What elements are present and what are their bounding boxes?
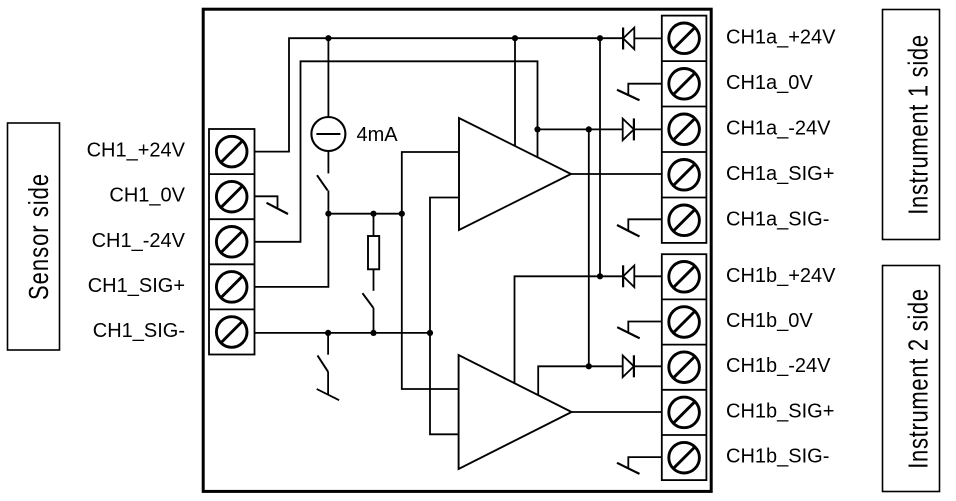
junction -24V rail at CH1a_-24V: [534, 126, 540, 132]
svg-text:CH1b_-24V: CH1b_-24V: [726, 355, 831, 377]
screw terminal TB1-1 CH1_+24V: [216, 136, 247, 167]
junction SIG- rail at op-amp branch: [427, 330, 433, 336]
wire CH1a_-24V rail to diode D2: [538, 128, 623, 130]
switch S2 blade: [363, 293, 374, 308]
junction node B at op-amp branch: [399, 211, 405, 217]
junction -24V down rail bottom: [586, 363, 592, 369]
diode D1 (to CH1a_+24V, cathode left): [623, 28, 634, 50]
switch S3 blade: [318, 356, 329, 372]
terminal block TB1 (sensor side) outline: [209, 129, 255, 355]
wire diode D2 to terminal TB2-3: [634, 128, 662, 130]
diode D3 (to CH1b_+24V, cathode left): [623, 265, 634, 287]
wire -24V down rail: [588, 129, 590, 366]
open stub at CH1a_SIG- terminal: [617, 219, 662, 236]
svg-text:Sensor side: Sensor side: [23, 173, 54, 300]
junction on node A above U1 supply: [512, 35, 518, 41]
screw terminal TB1-2 CH1_0V: [216, 181, 247, 212]
junction node B at switch S1: [325, 211, 331, 217]
svg-text:CH1b_SIG-: CH1b_SIG-: [726, 446, 829, 468]
wire node B down to op-amp U2 non-inverting input: [402, 214, 459, 389]
svg-text:CH1_-24V: CH1_-24V: [92, 230, 186, 252]
open stub at CH1b_SIG- terminal: [617, 457, 662, 474]
terminal block TB2 (instrument 1 side) outline: [662, 16, 707, 243]
instrument 1 side box: [883, 10, 940, 240]
svg-text:Instrument 1 side: Instrument 1 side: [903, 34, 934, 215]
svg-text:4mA: 4mA: [357, 124, 399, 146]
open stub at CH1a_0V terminal: [617, 84, 662, 101]
screw terminal TB2-4 CH1a_SIG+: [669, 160, 700, 191]
diode D2 (to CH1a_-24V, cathode right): [623, 118, 634, 140]
wire node B horizontal run: [328, 213, 401, 215]
terminal block TB3 (instrument 2 side) outline: [662, 254, 707, 480]
wire diode D1 to terminal TB2-1: [634, 37, 662, 39]
open-end slash below switch S3: [317, 389, 339, 400]
screw terminal TB3-3 CH1b_-24V: [669, 352, 700, 383]
svg-text:CH1b_0V: CH1b_0V: [726, 310, 813, 332]
current source I1 (4mA): [311, 117, 345, 151]
svg-text:CH1_SIG-: CH1_SIG-: [93, 320, 185, 342]
screw terminal TB3-4 CH1b_SIG+: [669, 397, 700, 428]
junction SIG- rail at switch S3: [325, 330, 331, 336]
junction SIG- rail at switch S2: [370, 330, 376, 336]
svg-text:CH1b_+24V: CH1b_+24V: [726, 265, 836, 287]
wire SIG- rail down to switch S3: [327, 333, 329, 355]
wire node B down-left to CH1_SIG+ terminal: [255, 214, 329, 287]
wire CH1b_-24V rail with op-amp U2 negative supply drop: [538, 366, 623, 395]
screw terminal TB2-1 CH1a_+24V: [669, 23, 700, 54]
open stub at CH1_0V terminal: [255, 196, 289, 214]
wire node A to op-amp U1 positive supply: [514, 38, 516, 146]
wire switch S3 lower lead: [327, 372, 329, 395]
wire node B up to op-amp U1 non-inverting input: [402, 152, 459, 214]
screw terminal TB1-5 CH1_SIG-: [216, 317, 247, 348]
op-amp U1: [459, 118, 571, 230]
screw terminal TB2-3 CH1a_-24V: [669, 114, 700, 145]
wire CH1_-24V terminal up and across to op-amp U1 negative supply: [255, 61, 538, 242]
wire resistor R1 bottom to switch S2: [373, 269, 375, 291]
svg-text:CH1_+24V: CH1_+24V: [87, 140, 186, 162]
wire op-amp U2 output to terminal TB3-4: [572, 411, 662, 413]
junction dots: [325, 35, 603, 369]
svg-text:CH1a_SIG+: CH1a_SIG+: [726, 163, 834, 185]
junction on node A above current source: [325, 35, 331, 41]
switch S1 blade: [317, 175, 328, 190]
wire node A down to CH1b_+24V rail: [599, 38, 601, 276]
svg-text:CH1_0V: CH1_0V: [109, 185, 185, 207]
wire switch S1 to node B: [327, 190, 329, 213]
screw terminal TB3-2 CH1b_0V: [669, 307, 700, 338]
wire node A to current source top: [327, 38, 329, 117]
sensor side box: [8, 123, 60, 350]
wire SIG- rail down to op-amp U2 inverting input: [430, 333, 459, 434]
screw terminal TB1-4 CH1_SIG+: [216, 272, 247, 303]
wire CH1_+24V terminal to node A: [255, 38, 624, 151]
wire CH1_SIG- rail: [255, 332, 431, 334]
resistor R1: [368, 236, 379, 269]
diode D4 (to CH1b_-24V, cathode right): [623, 355, 634, 377]
wire op-amp U1 output to terminal TB2-4: [571, 173, 662, 175]
wire diode D4 to terminal TB3-3: [634, 365, 662, 367]
wire switch S2 to SIG- rail: [373, 308, 375, 333]
svg-text:CH1_SIG+: CH1_SIG+: [88, 275, 185, 297]
screw terminal TB2-2 CH1a_0V: [669, 69, 700, 100]
junction +24V rail at CH1b_+24V: [597, 273, 603, 279]
screw terminal TB1-3 CH1_-24V: [216, 227, 247, 258]
screw terminal TB3-1 CH1b_+24V: [669, 262, 700, 293]
wire CH1b_+24V rail with op-amp U2 positive supply drop: [515, 276, 624, 383]
op-amp U2: [459, 355, 572, 469]
junction on node A above +24V down rail: [597, 35, 603, 41]
junction node B at resistor R1: [370, 211, 376, 217]
module enclosure box: [203, 9, 711, 491]
screw terminal TB2-5 CH1a_SIG-: [669, 205, 700, 236]
svg-text:CH1a_0V: CH1a_0V: [726, 72, 813, 94]
svg-text:CH1b_SIG+: CH1b_SIG+: [726, 400, 834, 422]
wire diode D3 to terminal TB3-1: [634, 275, 662, 277]
wire resistor R1 top to node B: [373, 214, 375, 236]
open stub at CH1b_0V terminal: [617, 322, 662, 339]
instrument 2 side box: [883, 266, 940, 492]
wire current source bottom to switch S1: [327, 151, 329, 173]
screw terminal TB3-5 CH1b_SIG-: [669, 442, 700, 473]
svg-text:Instrument 2 side: Instrument 2 side: [903, 288, 934, 469]
junction -24V down rail top: [586, 126, 592, 132]
wire SIG- rail up to op-amp U1 inverting input: [430, 198, 459, 333]
svg-text:CH1a_-24V: CH1a_-24V: [726, 117, 831, 139]
svg-text:CH1a_+24V: CH1a_+24V: [726, 26, 836, 48]
svg-text:CH1a_SIG-: CH1a_SIG-: [726, 208, 829, 230]
